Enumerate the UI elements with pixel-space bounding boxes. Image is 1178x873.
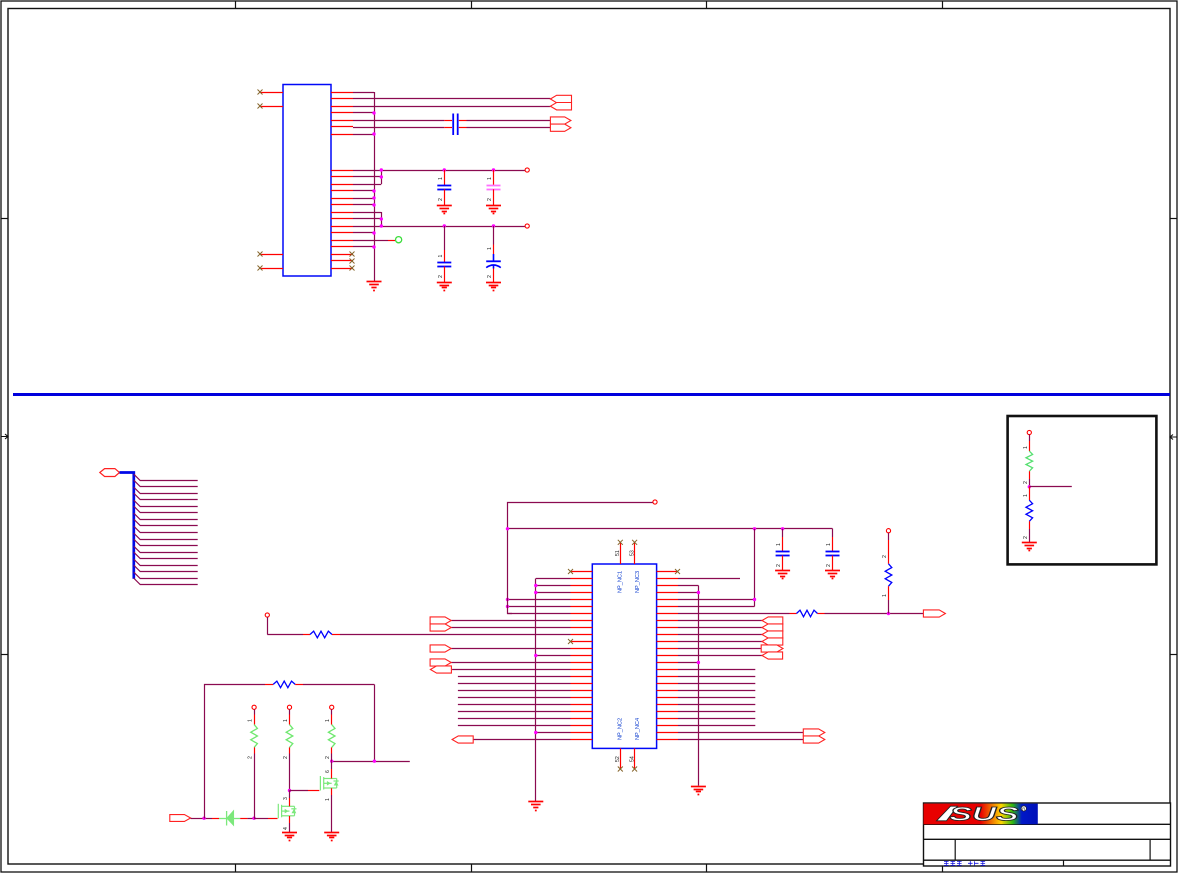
vertical bus wire x374 [374, 92, 376, 282]
svg-text:2: 2 [438, 198, 444, 201]
svg-text:4: 4 [283, 827, 289, 830]
wire L row6 [508, 613, 571, 615]
svg-text:1: 1 [882, 594, 888, 597]
junction dot (493,226) [492, 224, 495, 227]
svg-text:1: 1 [325, 798, 331, 801]
junction dot (374,205) [372, 203, 375, 206]
no-connect X marks U1 lower right pins [350, 252, 355, 271]
wire L row11 from J4 [451, 648, 570, 650]
resistor R8 pull-up [330, 705, 334, 709]
rail1 terminal circle [525, 168, 529, 172]
power rail y528.8 [508, 528, 833, 530]
svg-text:NP_NC2: NP_NC2 [618, 718, 624, 740]
IC U1 right pins lower group [331, 171, 353, 269]
date text (CJK) [944, 861, 985, 866]
svg-text:2: 2 [487, 275, 493, 278]
capacitor C3 (violet) [493, 170, 495, 185]
ground Q1 [282, 833, 297, 841]
junction dot R row6 x888 [887, 612, 890, 615]
wire net top loop [508, 503, 654, 614]
wire row 219 [353, 218, 381, 220]
connector J10 (flag points right) [170, 815, 191, 822]
wire L row8 from J3 [451, 627, 570, 629]
svg-text:1: 1 [325, 719, 331, 722]
Q1 drain source leads [289, 790, 291, 798]
junction dot (381,170) [380, 168, 383, 171]
junction dot L row2 [534, 584, 537, 587]
svg-text:54: 54 [629, 756, 635, 762]
junction dot x754 row4 [753, 598, 756, 601]
junction dot R row13 [697, 661, 700, 664]
svg-text:6: 6 [325, 770, 331, 773]
wire R row3 [678, 592, 698, 594]
rail2 terminal circle [525, 224, 529, 228]
wire L row1 [536, 578, 571, 580]
wire R5 right stub [295, 684, 303, 686]
svg-text:3: 3 [283, 797, 289, 800]
wire rail corner to C7 [832, 529, 834, 538]
svg-text:1: 1 [438, 177, 444, 180]
wire L row5 [508, 606, 571, 608]
junction dot (493,170) [492, 168, 495, 171]
junction dot (374,761) [373, 760, 376, 763]
U2 top pin 51 [620, 542, 622, 564]
wire stub detail box [1029, 486, 1072, 488]
junction dot (254,818) [252, 817, 255, 820]
wire row9 right segment [332, 634, 340, 636]
U2 top pin 53 [634, 542, 636, 564]
terminal circle detail box [1027, 430, 1031, 434]
svg-text:NP_NC4: NP_NC4 [635, 718, 641, 740]
capacitor C2 [444, 170, 446, 185]
junction dot 507 row4 [506, 598, 509, 601]
ground C6 [775, 571, 790, 579]
wire L row24 from J6 [473, 739, 570, 741]
off-page connector J2 (double, points right) [550, 117, 571, 124]
junction dot rail x754 [753, 527, 756, 530]
no-connect X bottom pin 52 [618, 767, 623, 772]
ground Q2 [324, 833, 339, 841]
svg-text:1: 1 [438, 255, 444, 258]
no-connect X U2 left pin row0 [568, 569, 573, 574]
connector J7 (flag points right) [923, 610, 945, 617]
wire row 191 [353, 190, 374, 192]
junction dot (289,789) [288, 789, 291, 792]
ground right bus [691, 787, 706, 795]
junction dot (381,219) [380, 217, 383, 220]
junction dot rail x507 [506, 527, 509, 530]
right loop wire [374, 685, 376, 762]
junction dot (444,170) [443, 168, 446, 171]
svg-text:2: 2 [776, 564, 782, 567]
connector J9 (double flag points right) [803, 729, 825, 736]
wire row 247 [353, 246, 374, 248]
terminal circle top net [653, 500, 657, 504]
detail box frame [1008, 416, 1157, 564]
wire row 233 [353, 232, 374, 234]
no-connect X top pin 51 [618, 540, 623, 545]
wire R7 to Q2 gate [290, 790, 309, 792]
transistor Q1 [278, 804, 296, 819]
junction dot (381,177) [380, 175, 383, 178]
jog vertical x381 rows170-184 [381, 170, 383, 184]
blue section divider bus line [13, 393, 1170, 396]
ground left bus [528, 802, 543, 811]
svg-text:R: R [1022, 806, 1025, 811]
svg-text:1: 1 [1023, 446, 1029, 449]
wire R row5 [678, 606, 755, 608]
terminal circle R4 [886, 529, 890, 533]
border mid-height arrow left [2, 434, 9, 439]
ground for bus x374 [367, 282, 382, 291]
wire U1 pin row 92 to bus [353, 92, 374, 94]
no-connect X U2 right pin row0 [675, 569, 680, 574]
svg-text:2: 2 [1023, 536, 1029, 539]
resistor R4 pullup [888, 533, 890, 540]
resistor R3 (series) [797, 610, 818, 617]
wire L row13 from J5 [451, 662, 570, 664]
wire R row4 [678, 599, 755, 601]
power rail 2 y226 [353, 226, 526, 228]
junction dot (381,226) [380, 224, 383, 227]
junction dot (374,191) [372, 189, 375, 192]
Q2 drain source leads [331, 761, 333, 769]
svg-text:NP_NC3: NP_NC3 [635, 571, 641, 593]
ground C2 [437, 206, 452, 214]
svg-text:2: 2 [1023, 481, 1029, 484]
vertical wire x754.5 [754, 529, 756, 607]
svg-text:2: 2 [325, 756, 331, 759]
wire row 170 pin to rail [353, 170, 381, 172]
capacitor C4 [444, 226, 446, 250]
wire row 177 [353, 176, 381, 178]
no-connect X top pin 53 [632, 540, 637, 545]
bus entry stub wires [134, 474, 198, 584]
resistor R9 (green) [1029, 435, 1031, 441]
ground C7 [825, 571, 840, 579]
svg-text:2: 2 [487, 198, 493, 201]
svg-text:1: 1 [776, 543, 782, 546]
svg-text:52: 52 [615, 756, 621, 762]
ground C3 [486, 206, 501, 214]
junction dot L row3 [534, 591, 537, 594]
ground detail box [1022, 543, 1037, 551]
power rail 1 y170 [381, 170, 525, 172]
wire R row11 to J8 [678, 648, 761, 650]
wire row 127 left of C1 [353, 127, 444, 129]
diode D1 [219, 811, 240, 826]
svg-text:53: 53 [629, 550, 635, 556]
right bus wire x698.4 [698, 586, 700, 786]
wire drop from circle [267, 617, 269, 634]
wire L row14 from J5 [452, 669, 570, 671]
resistor R5 (series) [273, 681, 295, 688]
wire diode to R6 junction [240, 818, 247, 820]
ground C5 [486, 283, 501, 291]
left bus wire x535.8 [535, 579, 537, 802]
capacitor C6 [782, 529, 784, 537]
terminal circle net row9 [265, 613, 269, 617]
U2 bottom pin 52 [620, 748, 622, 769]
svg-text:1: 1 [826, 543, 832, 546]
wire R row1 stub [678, 578, 740, 580]
no-connect X U2 left pin row10 [568, 639, 573, 644]
resistor R6 pull-up [252, 705, 256, 709]
junction dot 507 row5 [506, 605, 509, 608]
svg-text:2: 2 [283, 756, 289, 759]
capacitor C5 (polarized) [493, 226, 495, 245]
svg-text:1: 1 [487, 177, 493, 180]
connector J4 (single flag) [430, 645, 451, 652]
wire row 184 [353, 184, 374, 186]
no-connect X bottom pin 54 [632, 767, 637, 772]
wire R row23 to J9 [678, 732, 803, 734]
wire y761 [332, 761, 410, 763]
junction dot (374,233) [372, 231, 375, 234]
wire L row7 from J3 [451, 620, 570, 622]
connector J3 (double flag) [430, 617, 451, 624]
net connector hexagon [100, 469, 120, 477]
ground C4 [437, 283, 452, 291]
svg-text:2: 2 [882, 555, 888, 558]
IC U2 body [592, 564, 656, 748]
svg-text:SUS: SUS [950, 805, 1020, 826]
junction dot L row12 [534, 654, 537, 657]
wire L row2 [536, 585, 571, 587]
wire group R rows7-10 to J8 [678, 621, 762, 642]
IC U2 right pins [657, 572, 678, 740]
capacitor C7 [832, 537, 834, 552]
resistor R7 pull-up [287, 705, 291, 709]
junction dot rail x782 [781, 527, 784, 530]
wire L row12 [536, 655, 571, 657]
wire R row12 to J8 [678, 655, 762, 657]
wire group L rows15-22 [458, 677, 571, 726]
transistor Q2 [320, 776, 338, 791]
wire row 113 to bus [353, 112, 374, 114]
wire J10 to diode [191, 818, 205, 820]
svg-text:1: 1 [1023, 494, 1029, 497]
left loop wire [205, 685, 266, 819]
wire R row6 left [678, 613, 790, 615]
wire R row6 right [818, 613, 825, 615]
wire to R5 left stub [265, 684, 273, 686]
IC U2 left pins [571, 572, 593, 740]
wire row 205 [353, 204, 374, 206]
junction dot (374,198) [372, 196, 375, 199]
svg-text:2: 2 [826, 564, 832, 567]
junction dot R row3 [697, 591, 700, 594]
wire L row23 [536, 732, 571, 734]
ASUS logo [924, 804, 1038, 826]
wire R row13 [678, 662, 698, 664]
IC U1 left pins [260, 93, 283, 269]
wire row 99 to connector J1 [353, 98, 550, 100]
wire row 106 to connector J1 [353, 106, 550, 108]
junction dot (444,226) [443, 224, 446, 227]
series capacitor plates C1 [453, 114, 458, 136]
wire row9 left segment [267, 634, 303, 636]
wire row 134 to bus [353, 134, 374, 136]
svg-text:NP_NC1: NP_NC1 [618, 571, 624, 593]
svg-text:51: 51 [615, 550, 621, 556]
connector J6 (flag points left) [452, 736, 473, 743]
connector stack J8 [762, 617, 783, 624]
wire row 127 right of C1 [459, 127, 467, 129]
wire L row4 [508, 599, 571, 601]
wire to Q1 gate [254, 818, 268, 820]
junction dot (204,818) [202, 817, 205, 820]
off-page connector J1 (double, points left) [550, 95, 571, 102]
svg-text:1: 1 [283, 719, 289, 722]
IC U1 right pins upper group [331, 93, 353, 135]
wire L row3 [536, 592, 571, 594]
svg-text:2: 2 [438, 275, 444, 278]
thick blue bus wire [120, 473, 134, 579]
junction dot (331,761) [330, 760, 333, 763]
border mid-height arrow right [1170, 435, 1177, 440]
wire row 240 to test point [353, 240, 374, 242]
wire row 212 jog [353, 212, 381, 214]
wire R row2 [678, 585, 698, 587]
connector J5 (double flag mixed) [430, 659, 451, 666]
title block grid [924, 803, 1171, 866]
svg-text:1: 1 [248, 719, 254, 722]
wire row 120 left of C1 [353, 120, 444, 122]
wire R row24 to J9 [678, 739, 803, 741]
svg-text:1: 1 [487, 247, 493, 250]
junction dot L row23 [534, 731, 537, 734]
junction dot (374,247) [372, 245, 375, 248]
wire row 120 right of C1 [459, 120, 467, 122]
wire group R rows14-22 [678, 670, 755, 726]
junction dot (374,113) [372, 111, 375, 114]
junction dot (374,134) [372, 132, 375, 135]
wire row 198 [353, 198, 374, 200]
no-connect X marks U1 left [258, 90, 263, 271]
svg-text:2: 2 [248, 756, 254, 759]
green no-connect circle [396, 237, 402, 243]
junction dot detail box [1028, 485, 1031, 488]
resistor R2 (series) [310, 631, 332, 638]
IC U1 body [283, 85, 331, 277]
U2 bottom pin 54 [634, 748, 636, 769]
